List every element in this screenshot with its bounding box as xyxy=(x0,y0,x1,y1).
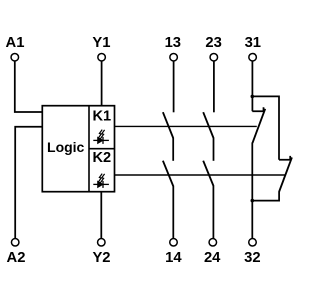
NC contact K1 fixed seat xyxy=(252,107,264,111)
NC contact K1 blade xyxy=(253,109,266,143)
terminal 14 xyxy=(165,239,182,266)
NC contact K2 blade xyxy=(279,157,292,191)
junction node at 32 branch xyxy=(251,199,255,203)
svg-text:Logic: Logic xyxy=(47,139,85,155)
wire second contact to 14 xyxy=(172,186,174,239)
terminal Y2 xyxy=(92,239,110,266)
wire Y2 from logic box xyxy=(100,192,102,239)
svg-text:Y2: Y2 xyxy=(92,250,110,266)
svg-text:24: 24 xyxy=(204,250,221,266)
wire 23 to first contact xyxy=(213,61,215,112)
terminal 23 xyxy=(205,35,221,61)
wire 13 to first contact xyxy=(173,61,175,112)
svg-text:32: 32 xyxy=(244,250,260,266)
wire between contacts 23-24 xyxy=(213,138,215,161)
wire A2 to logic box xyxy=(15,127,42,239)
svg-text:K1: K1 xyxy=(92,109,111,125)
wire NC contact to 32 xyxy=(251,143,253,239)
LED indicator for K1 xyxy=(93,130,109,144)
logic module box U1 xyxy=(42,106,114,192)
NO contact K2 in path 23-24 xyxy=(203,161,213,186)
wire second contact to 24 xyxy=(212,186,214,239)
svg-text:23: 23 xyxy=(205,35,221,51)
svg-text:14: 14 xyxy=(165,250,182,266)
K1 actuation line xyxy=(115,125,257,127)
bypass wire from junction to second NC contact xyxy=(252,96,279,159)
svg-text:13: 13 xyxy=(165,35,181,51)
svg-text:Y1: Y1 xyxy=(92,35,110,51)
LED indicator for K2 xyxy=(93,174,109,188)
wire 31 down to NC contact xyxy=(251,61,253,111)
K2 actuation line xyxy=(115,174,285,176)
NO contact K1 in path 23-24 xyxy=(203,112,213,138)
terminal A1 xyxy=(6,35,25,61)
svg-text:A1: A1 xyxy=(6,35,25,51)
NC contact K2 fixed seat xyxy=(279,156,291,160)
junction node at 31 branch xyxy=(251,95,255,99)
divider between logic section and relay column xyxy=(88,106,90,192)
svg-text:31: 31 xyxy=(245,35,261,51)
NO contact K2 in path 13-14 xyxy=(163,161,173,186)
terminal 31 xyxy=(245,35,261,61)
terminal 32 xyxy=(244,239,260,266)
wire A1 to logic box xyxy=(15,61,43,112)
terminal Y1 xyxy=(92,35,110,61)
terminal A2 xyxy=(7,239,26,266)
svg-text:K2: K2 xyxy=(92,150,111,166)
wire between contacts 13-14 xyxy=(172,138,174,161)
terminal 24 xyxy=(204,239,221,266)
terminal 13 xyxy=(165,35,181,61)
divider between K1 cell and K2 cell xyxy=(89,148,115,150)
NO contact K1 in path 13-14 xyxy=(163,112,173,138)
wire Y1 to logic box xyxy=(101,61,103,105)
svg-text:A2: A2 xyxy=(7,250,26,266)
wire from second NC contact back to main xyxy=(252,191,279,201)
